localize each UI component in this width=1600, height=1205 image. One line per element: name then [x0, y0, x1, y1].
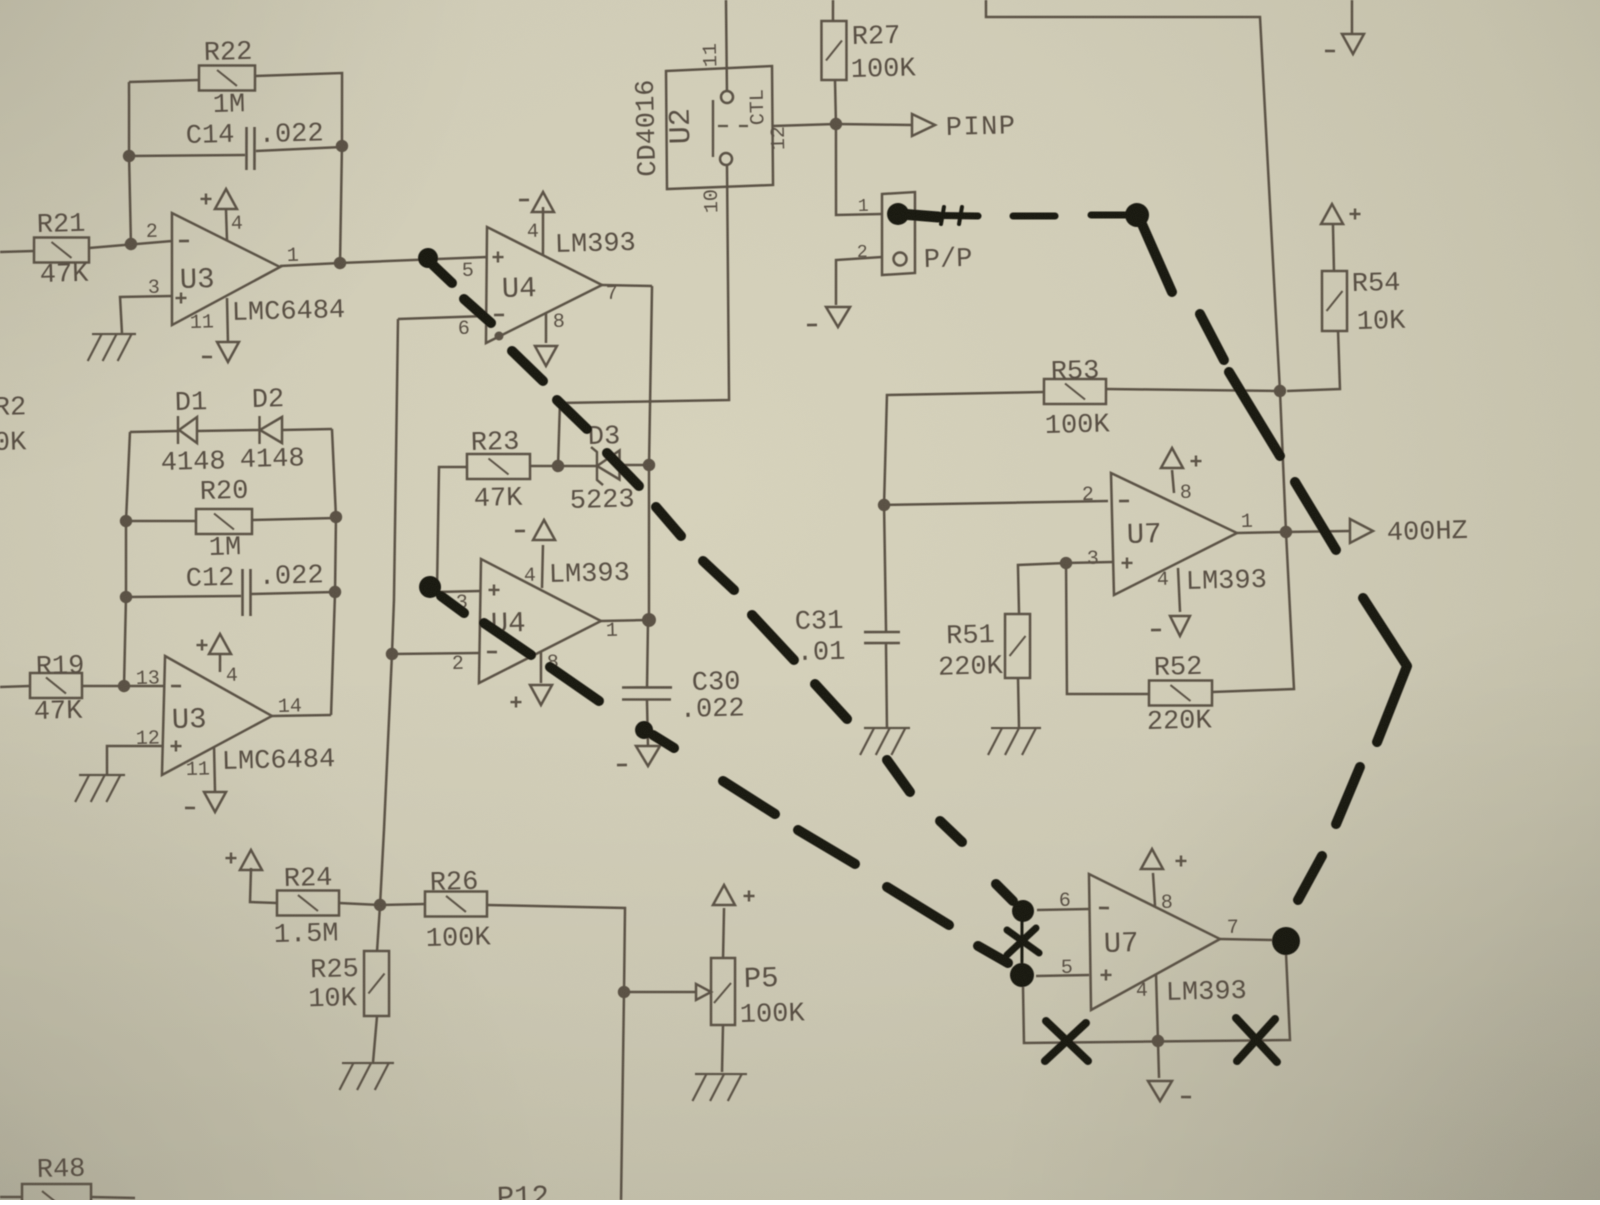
- wire R27 top: [832, 0, 833, 21]
- wire R53 right: [1106, 384, 1280, 395]
- U4b plus input: [489, 588, 500, 591]
- U3b plus input: [171, 745, 182, 748]
- op-amp U4 (bottom) LM393: [476, 556, 603, 683]
- P5 V+ power arrow: [712, 885, 735, 906]
- op-amp U3 (bottom) LMC6484: [159, 653, 274, 775]
- minus power arrow below C30: [636, 745, 661, 766]
- node U4b output: [642, 613, 656, 627]
- resistor R22: [198, 64, 255, 92]
- ground below P5: [695, 1073, 747, 1076]
- U3b minus input: [171, 684, 181, 687]
- resistor R27 100K: [820, 20, 848, 80]
- 400HZ output arrow: [1286, 530, 1350, 532]
- wire U4b output node to C30: [645, 621, 649, 687]
- node R20 left: [120, 515, 133, 528]
- resistor R51 220K: [1003, 613, 1031, 678]
- U7 minus input: [1119, 499, 1129, 502]
- wire R26 right to P5 node: [487, 901, 633, 1203]
- hand-drawn dashed line C9: [1297, 856, 1323, 900]
- minus power arrow below P/P: [826, 306, 851, 327]
- hand-drawn dashed line A12: [996, 884, 1013, 902]
- hand-drawn dashed line B6: [798, 829, 855, 866]
- U7 pin 3 node and wires: [1060, 557, 1073, 570]
- U2 control dashes: [718, 125, 728, 128]
- hand-drawn dashed line C4: [1200, 313, 1224, 360]
- hand-drawn dashed line B3: [550, 666, 599, 703]
- wire rail to minus arrow: [1158, 1041, 1159, 1078]
- U3 plus input: [175, 297, 186, 300]
- U2 switch arm: [711, 100, 714, 157]
- hand-drawn dashed line A5: [607, 452, 639, 487]
- wire U4 output down to D3 node: [640, 286, 661, 620]
- wire P5 to ground: [721, 1025, 724, 1072]
- node C12 right: [329, 586, 342, 599]
- resistor R25 10K: [362, 950, 390, 1016]
- hand-drawn dashed line B5: [723, 780, 775, 816]
- node 400HZ: [1280, 526, 1293, 539]
- node U7b pin 4 rail: [1152, 1035, 1165, 1048]
- ground below C31: [864, 727, 910, 729]
- node R20 right: [330, 511, 343, 524]
- U7 plus input: [1122, 561, 1133, 564]
- U2 pin 11 wire: [725, 0, 729, 91]
- U4 V+ pin 8 down arrow: [545, 313, 547, 343]
- node D3 left: [552, 460, 565, 473]
- P/P pin1 contact circle: [892, 208, 905, 221]
- hand-drawn dashed line A3: [512, 350, 543, 382]
- wire U7 pin 2: [884, 499, 1108, 507]
- wire C14 right: [256, 147, 342, 151]
- R54 V+ power arrow: [1321, 204, 1344, 225]
- wire U7b pin 6: [1037, 909, 1089, 911]
- connector P/P: [880, 192, 917, 275]
- hand-drawn blob at U7b output: [1272, 927, 1301, 956]
- U7b minus input: [1099, 906, 1109, 909]
- hand-drawn dashed line C3: [1142, 223, 1172, 292]
- node R54/R53: [1274, 385, 1287, 398]
- ground at U3 top pin 3: [92, 333, 136, 335]
- hand-drawn blob at U7b pin 5: [1010, 963, 1035, 988]
- op-amp U7 (bottom) LM393: [1087, 871, 1221, 1010]
- wire R20 left: [126, 519, 196, 523]
- hand-drawn dashed line A1: [433, 265, 452, 284]
- resistor R21: [33, 236, 89, 264]
- wire R19 input: [0, 685, 30, 688]
- wire C31 to ground: [885, 644, 888, 727]
- hand-drawn blob on C30 wire: [635, 721, 653, 739]
- hand-drawn dashed line B2: [484, 622, 531, 656]
- wire R19 to U3 pin 13: [82, 684, 164, 688]
- wire U4 pin 6 long vertical to lower area: [398, 316, 486, 319]
- U7b plus input: [1101, 973, 1112, 976]
- ground below R25: [342, 1062, 394, 1065]
- U4b V+ pin 8 down arrow: [540, 652, 542, 683]
- U7 V- pin 4 down arrow: [1178, 568, 1180, 612]
- node U4b pin2 junction: [386, 648, 399, 661]
- U4 V- power arrow pin 4: [531, 192, 554, 213]
- hand-drawn dashed line A6: [656, 506, 681, 536]
- node D3 right: [643, 459, 656, 472]
- node C12 left: [120, 591, 133, 604]
- hand-drawn dashed line A11: [940, 820, 962, 842]
- U4b V- power arrow pin 4: [533, 520, 556, 541]
- hand-drawn dashed line A8: [752, 614, 794, 661]
- wire D-row left down: [124, 432, 133, 521]
- wire U3b pin 12 to ground: [106, 744, 164, 774]
- ground below R51: [991, 727, 1041, 730]
- U3 minus input: [179, 239, 189, 242]
- wire R22 right: [255, 73, 344, 148]
- potentiometer P5 100K: [709, 957, 737, 1025]
- wire C12 left: [126, 594, 241, 599]
- hand-drawn dashed line C7 bend: [1363, 597, 1409, 742]
- resistor R26 100K: [424, 890, 487, 918]
- op-amp U3 (top) LMC6484: [169, 210, 281, 325]
- hand-drawn dashed line A10: [887, 759, 910, 792]
- hand-drawn X on rail left: [1046, 1020, 1088, 1062]
- node PINP: [830, 118, 843, 131]
- wire D-row right down: [332, 429, 336, 517]
- hand-drawn dashed line A2: [464, 298, 491, 323]
- hand-drawn dashed line A9: [815, 683, 847, 720]
- hand-drawn pen link between U7b inputs: [1021, 921, 1023, 962]
- hand-drawn X over U7b input link: [1007, 929, 1039, 954]
- op-amp U4 (top) LM393: [483, 224, 603, 343]
- resistor R54 10K: [1320, 270, 1348, 331]
- wire U7b pin 5: [1036, 975, 1089, 977]
- wire C12 right node down to U3b output: [328, 592, 338, 715]
- wire R52 left to pin3 node: [1064, 561, 1149, 696]
- hand-drawn dashed line C1: [1013, 215, 1055, 217]
- wire R20 right: [252, 518, 336, 520]
- hand-drawn dashed line B8: [978, 945, 1008, 964]
- hand-drawn blob at U4 pin 5 node: [418, 248, 439, 269]
- wire R27 bottom to node: [835, 80, 836, 124]
- U3 V- power arrow pin 11: [227, 298, 228, 342]
- node C14 left: [123, 150, 136, 163]
- hand-drawn dashed line A4: [557, 399, 587, 430]
- wire C12 right: [251, 592, 335, 594]
- wire node to R25: [376, 905, 381, 951]
- wire node to R26: [380, 904, 425, 905]
- wire R51 to ground: [1018, 678, 1020, 727]
- node R24/R25/R26: [374, 899, 387, 912]
- U3b V+ power arrow pin 4: [208, 634, 231, 655]
- hand-drawn dashed line B4: [653, 734, 674, 748]
- wire R21 to U3 pin 2: [89, 241, 172, 248]
- hand-drawn dashed line C6: [1295, 481, 1336, 551]
- hand-drawn blob at U4b pin 3 node: [419, 576, 442, 599]
- wire P/P pin 2 to minus rail: [835, 257, 884, 305]
- op-amp U7 (top) LM393: [1111, 470, 1239, 595]
- hand-drawn blob at P/P pin 1: [887, 203, 910, 226]
- wire R54 bottom to node: [1285, 331, 1340, 391]
- small dot on U4 lower edge: [494, 331, 503, 340]
- wire C14 right node down to output node: [337, 146, 345, 263]
- top right corner wire: [986, 0, 1294, 697]
- wire U4b pin 2: [392, 652, 479, 656]
- wire D1-D2 row: [130, 431, 178, 433]
- hand-drawn dashed line C8: [1335, 767, 1362, 824]
- U2 switch top contact: [721, 91, 733, 103]
- hand-drawn X on rail right: [1236, 1017, 1277, 1063]
- wire R22 left: [129, 80, 199, 82]
- node P5 wiper: [618, 986, 631, 999]
- U4 plus input: [493, 256, 504, 259]
- hand-drawn dashed line B1: [441, 595, 464, 613]
- R24 V+ power arrow: [239, 850, 262, 871]
- wire U3 output to U4 pin 5: [340, 257, 487, 263]
- U7b V+ power arrow pin 8: [1140, 849, 1163, 870]
- node U3 output: [334, 257, 347, 270]
- resistor R53 100K: [1043, 377, 1106, 405]
- wire U2 pin 12 CTL to R27 node: [773, 124, 836, 126]
- wire U3 pin 3 to ground: [120, 296, 173, 333]
- wire C12 left node down to pin 13 node: [122, 597, 129, 686]
- U4 minus input: [494, 313, 504, 316]
- node R21/U3-2: [125, 238, 138, 251]
- P/P pin2 contact circle: [893, 252, 906, 265]
- wire C30 to minus arrow: [647, 700, 648, 747]
- P5 wiper arrow: [624, 990, 696, 994]
- U2 switch bottom contact: [720, 153, 732, 165]
- hand-drawn dashed line B7: [887, 885, 949, 926]
- IC U2 CD4016 analog switch: [664, 66, 775, 189]
- U3 V+ power arrow pin 4: [214, 189, 237, 210]
- wire R20 node down to C12 node right: [333, 517, 338, 592]
- PINP output arrow: [836, 122, 912, 127]
- wire R22 left vertical: [127, 82, 131, 156]
- hand-drawn dashed line A7: [703, 560, 734, 591]
- resistor R24 1.5M: [276, 889, 339, 917]
- ground at U3 bottom pin 12: [79, 774, 125, 776]
- node U7 pin 2: [878, 499, 891, 512]
- hand-drawn blob at U7b pin 6: [1012, 900, 1035, 923]
- wire R20 node down to C12 node left: [124, 521, 128, 597]
- resistor R52 220K: [1148, 679, 1212, 707]
- node R19/U3-13: [118, 680, 131, 693]
- resistor R23 47K: [466, 452, 530, 480]
- resistor R20 1M: [195, 508, 252, 536]
- wire C14 left: [129, 153, 245, 158]
- U4b minus input: [487, 650, 497, 653]
- wire R53 left + vertical to C31: [880, 391, 1050, 631]
- wire C14 node down to pin2 node: [129, 156, 132, 244]
- U7 V+ power arrow pin 8: [1160, 448, 1183, 469]
- hand-drawn dashed line C2: [1091, 214, 1127, 216]
- wire R23 left to U4b pin 3: [434, 466, 471, 592]
- wire R21 input: [0, 250, 34, 253]
- minus power arrow below U7b: [1148, 1080, 1173, 1101]
- hand-drawn scribble right of P/P blob: [903, 213, 978, 218]
- wire R23 right to D3: [530, 465, 558, 466]
- U7b feedback rail: [1022, 954, 1290, 1047]
- wire R24 to node: [339, 902, 380, 906]
- resistor R19 47K: [29, 672, 82, 700]
- U7b pin 4 stub: [1156, 974, 1158, 1041]
- wire R25 to ground: [372, 1016, 378, 1062]
- hand-drawn dashed line C5: [1229, 371, 1280, 458]
- minus power arrow top right: [1351, 0, 1353, 34]
- wire U2 pin 10 to D3 left node: [550, 165, 735, 466]
- wire node to P/P pin 1: [834, 123, 882, 215]
- hand-drawn blob right of P/P: [1125, 203, 1150, 228]
- U3b V- power arrow pin 11: [214, 747, 215, 791]
- node C14 right: [336, 140, 349, 153]
